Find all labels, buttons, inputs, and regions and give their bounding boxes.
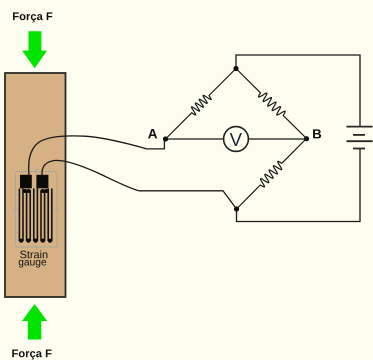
label Força F (bottom) — [12, 349, 51, 359]
wire: A to voltmeter — [166, 138, 224, 140]
wire: voltmeter to B — [249, 138, 307, 140]
wire: gauge pad1 lead — [29, 136, 165, 176]
node B junction dot — [304, 136, 309, 141]
gauge solder pad 1 — [20, 175, 32, 189]
top node junction dot — [233, 66, 238, 71]
wire: gauge pad2 lead — [42, 160, 237, 209]
label A — [148, 129, 157, 138]
force arrow up (green) — [22, 304, 47, 340]
resistor R2 (upper-right arm top to B) — [236, 69, 307, 139]
wire: bottom node to battery minus — [237, 149, 361, 222]
gauge top loop blobs — [23, 189, 27, 193]
bottom node junction dot — [234, 206, 239, 211]
gauge bottom loop blobs — [19, 189, 52, 243]
voltmeter V1 — [224, 127, 249, 152]
wire: top node to battery plus — [236, 55, 360, 127]
gauge solder pad 2 — [36, 175, 48, 189]
label B — [313, 129, 321, 138]
resistor R3 (lower-right arm B to bottom) — [237, 139, 307, 210]
label Strain gauge — [20, 250, 47, 258]
battery B1 — [347, 127, 373, 149]
force arrow down (green) — [22, 31, 47, 68]
resistor R1 (upper-left arm A to top) — [166, 69, 237, 140]
label Força F (top) — [13, 12, 52, 22]
specimen beam (tan bar) — [5, 73, 66, 297]
strain gauge backing outline — [16, 172, 58, 248]
node A junction dot — [163, 136, 168, 141]
gauge serpentine grid — [19, 189, 51, 241]
gauge alignment ticks — [13, 169, 60, 250]
